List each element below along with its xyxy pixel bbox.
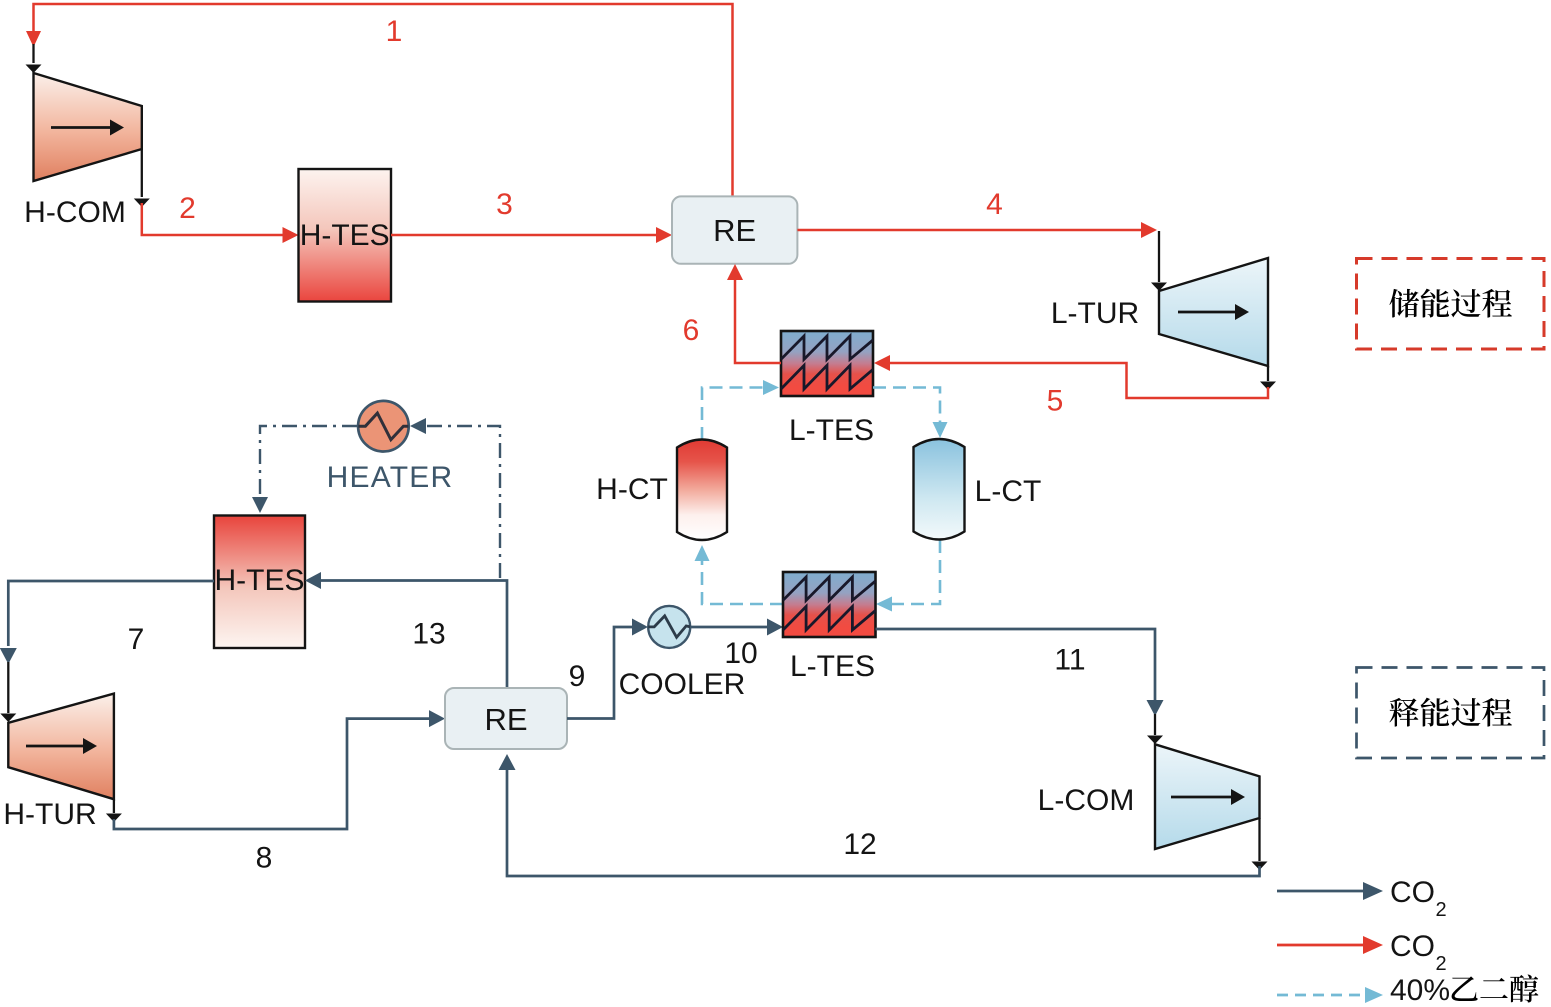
svg-text:CO: CO	[1390, 930, 1435, 963]
recuperator RE (charging)	[672, 196, 797, 263]
recuperator RE (discharging)	[445, 688, 567, 749]
wire stream 6 L-TES-to-RE	[727, 264, 781, 363]
svg-text:2: 2	[179, 192, 196, 225]
wire stream 5 L-TUR-to-L-TES	[874, 355, 1276, 398]
svg-text:L-COM: L-COM	[1038, 784, 1135, 817]
svg-text:H-COM: H-COM	[24, 196, 126, 229]
node label 7	[128, 623, 145, 656]
legend CO2 navy arrow	[1277, 876, 1447, 921]
wire stream 11 L-TES-to-L-COM	[876, 629, 1164, 744]
node label 3	[496, 188, 513, 221]
svg-text:2: 2	[1436, 899, 1447, 921]
node label 4	[986, 188, 1003, 221]
svg-text:RE: RE	[713, 213, 756, 248]
heat-exchanger L-TES (charging)	[781, 331, 874, 447]
tank H-TES (discharging)	[214, 516, 305, 649]
tank L-CT cold	[914, 439, 1042, 540]
wire stream 2 H-COM-to-H-TES	[134, 149, 299, 243]
svg-text:11: 11	[1054, 644, 1085, 677]
svg-text:2: 2	[1436, 953, 1447, 975]
node label 1	[386, 15, 403, 48]
svg-text:CO: CO	[1390, 876, 1435, 909]
legend box discharging process 释能过程	[1357, 668, 1545, 759]
wire stream 7 H-TES-to-H-TUR	[0, 581, 214, 722]
node label 2	[179, 192, 196, 225]
node label 5	[1047, 385, 1064, 418]
svg-text:40%: 40%	[1390, 974, 1450, 1007]
pipe glycol H-CT-to-L-TES-top dashed	[702, 380, 779, 440]
svg-text:HEATER: HEATER	[327, 461, 454, 494]
heat-exchanger L-TES (discharging)	[783, 572, 876, 683]
svg-text:L-TUR: L-TUR	[1051, 297, 1139, 330]
compressor H-COM	[24, 73, 142, 229]
svg-text:6: 6	[683, 314, 700, 347]
wire stream 3 H-TES-to-RE	[391, 227, 672, 243]
node label 11	[1054, 644, 1085, 677]
heater HEATER	[327, 401, 454, 494]
svg-text:7: 7	[128, 623, 145, 656]
node label 9	[569, 660, 586, 693]
wire stream 12 L-COM-to-RE	[499, 754, 1268, 876]
pipe glycol L-TES-bottom-to-H-CT dashed	[695, 545, 784, 604]
node label 13	[412, 618, 445, 651]
wire stream 8 H-TUR-to-RE	[106, 710, 445, 829]
wire stream 1 red RE-to-H-COM	[26, 4, 733, 196]
node label 8	[256, 842, 273, 875]
svg-text:4: 4	[986, 188, 1003, 221]
legend box charging process 储能过程	[1357, 259, 1545, 350]
node label 12	[843, 828, 876, 861]
cooler COOLER	[619, 606, 746, 701]
svg-text:1: 1	[386, 15, 403, 48]
wire stream 13 RE-to-H-TES	[305, 572, 507, 688]
svg-text:L-TES: L-TES	[790, 650, 875, 683]
node label 6	[683, 314, 700, 347]
svg-text:COOLER: COOLER	[619, 668, 746, 701]
turbine H-TUR	[3, 694, 114, 831]
svg-text:RE: RE	[484, 702, 527, 737]
wire stream 9 RE-to-COOLER	[567, 619, 648, 719]
svg-text:9: 9	[569, 660, 586, 693]
pipe heater loop dash-dot HEATER to H-TES	[252, 426, 357, 513]
svg-text:13: 13	[412, 618, 445, 651]
wire stream 4 RE-to-L-TUR	[797, 222, 1167, 291]
turbine L-TUR	[1051, 258, 1268, 366]
tank H-CT hot	[596, 440, 727, 541]
wire stream 10 COOLER-to-L-TES	[690, 619, 783, 636]
svg-text:H-CT: H-CT	[596, 473, 668, 506]
svg-text:L-CT: L-CT	[975, 475, 1042, 508]
svg-text:L-TES: L-TES	[789, 414, 874, 447]
legend CO2 red arrow	[1277, 930, 1447, 975]
svg-text:8: 8	[256, 842, 273, 875]
tank H-TES (charging)	[299, 169, 392, 302]
svg-text:12: 12	[843, 828, 876, 861]
svg-text:H-TUR: H-TUR	[3, 798, 96, 831]
pipe glycol L-TES-top-to-L-CT dashed	[873, 388, 948, 439]
compressor L-COM	[1038, 744, 1260, 849]
pipe heater loop dash-dot from stream13 to HEATER	[410, 418, 500, 578]
svg-text:10: 10	[724, 637, 757, 670]
pipe glycol L-CT-to-L-TES-bottom dashed	[876, 540, 940, 612]
legend 40% glycol dashed arrow	[1277, 974, 1538, 1007]
svg-text:5: 5	[1047, 385, 1064, 418]
node label 10	[724, 637, 757, 670]
svg-text:H-TES: H-TES	[215, 564, 305, 597]
svg-text:3: 3	[496, 188, 513, 221]
svg-text:H-TES: H-TES	[300, 219, 390, 252]
